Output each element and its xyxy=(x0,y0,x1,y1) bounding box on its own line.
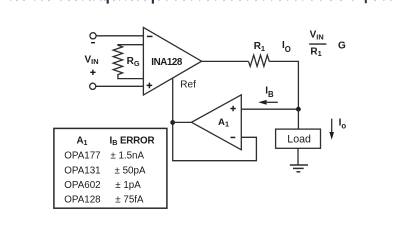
pin mark plus (A1) xyxy=(230,106,235,111)
ground xyxy=(290,165,308,172)
wire: junction to A1 output apex xyxy=(173,121,192,123)
op-amp U1 INA128 xyxy=(143,27,201,95)
svg-text:G: G xyxy=(338,41,346,52)
input terminal (negative) xyxy=(90,33,96,39)
svg-text:OPA128: OPA128 xyxy=(64,195,101,206)
svg-text:VIN: VIN xyxy=(85,55,99,67)
resistor RG xyxy=(113,45,143,79)
arrow IB (points left) xyxy=(258,100,266,105)
svg-text:R1: R1 xyxy=(310,46,321,58)
load box xyxy=(276,129,321,148)
arrow IO (current into load) xyxy=(331,119,333,134)
pin mark minus (INA128) xyxy=(147,36,153,38)
node: junction at load top xyxy=(296,107,301,112)
wire: load node to A1 + input xyxy=(241,108,298,110)
svg-text:INA128: INA128 xyxy=(151,57,183,68)
wire: top input to INA128 inverting input xyxy=(96,35,143,37)
wire: INA128 output to R1 xyxy=(202,60,249,62)
wire: load to ground xyxy=(297,148,299,165)
table: A1 vs IB ERROR xyxy=(54,128,167,208)
svg-text:IB: IB xyxy=(265,86,274,100)
svg-text:A1: A1 xyxy=(218,117,229,129)
polarity mark plus xyxy=(90,70,95,75)
svg-text:OPA177: OPA177 xyxy=(64,150,100,161)
wire: Ref pin down to junction xyxy=(172,78,174,123)
pin mark minus (A1) xyxy=(231,137,236,139)
polarity mark minus xyxy=(91,42,95,43)
svg-text:OPA602: OPA602 xyxy=(64,180,100,191)
svg-text:± 1.5nA: ± 1.5nA xyxy=(110,150,144,161)
svg-text:± 50pA: ± 50pA xyxy=(115,165,146,176)
pin mark plus (INA128) xyxy=(147,83,153,89)
svg-text:Io: Io xyxy=(339,118,347,131)
node: junction at A1 output / Ref xyxy=(170,120,175,125)
cropped text line at top xyxy=(10,0,392,4)
svg-text:± 75fA: ± 75fA xyxy=(115,195,144,206)
svg-text:RG: RG xyxy=(127,56,140,68)
wire: R1 to load node xyxy=(269,61,298,109)
svg-text:IO: IO xyxy=(282,40,291,54)
wire: junction down to load xyxy=(297,109,299,129)
svg-text:Load: Load xyxy=(287,134,311,146)
svg-text:± 1pA: ± 1pA xyxy=(115,180,141,191)
input terminal (positive) xyxy=(90,83,96,89)
wire: bottom input to INA128 non-inverting input xyxy=(96,85,143,87)
svg-text:R1: R1 xyxy=(254,41,265,53)
resistor R1 xyxy=(249,55,270,66)
svg-text:OPA131: OPA131 xyxy=(64,165,100,176)
op-amp A1 xyxy=(192,95,242,150)
wire: A1 minus input feedback xyxy=(173,122,257,160)
svg-text:VIN: VIN xyxy=(310,29,324,41)
svg-text:Ref: Ref xyxy=(180,80,196,91)
